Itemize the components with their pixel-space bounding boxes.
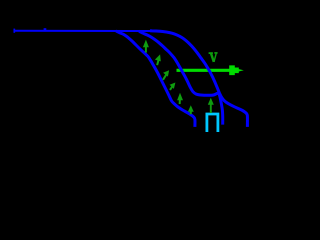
small arrow A2	[155, 54, 161, 65]
top plateau line with start cap	[14, 28, 46, 33]
small arrow A1	[143, 40, 149, 53]
small arrow A6	[188, 105, 194, 114]
small arrow A4	[170, 83, 176, 90]
label v	[209, 53, 218, 62]
curve c1 (leftmost front, steepest)	[116, 31, 195, 127]
small arrow A5	[177, 93, 183, 104]
velocity arrow v (shaft)	[177, 65, 244, 75]
curve c2 (middle front)	[139, 31, 223, 124]
curve c3 (top line bending into rightmost front)	[14, 30, 156, 32]
small arrow A7 (above house)	[208, 98, 214, 113]
house (cyan gate)	[207, 114, 218, 132]
small arrow A3	[163, 70, 169, 80]
